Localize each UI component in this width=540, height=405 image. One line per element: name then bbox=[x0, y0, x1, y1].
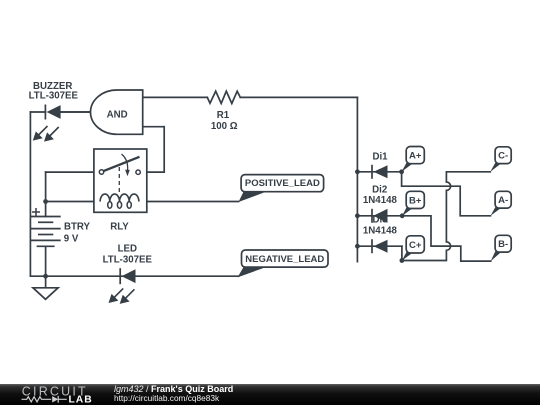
svg-text:LAB: LAB bbox=[69, 394, 93, 405]
svg-text:Di2: Di2 bbox=[372, 184, 387, 195]
svg-text:POSITIVE_LEAD: POSITIVE_LEAD bbox=[245, 178, 320, 189]
svg-text:AND: AND bbox=[107, 110, 128, 121]
svg-text:1N4148: 1N4148 bbox=[363, 226, 398, 237]
svg-text:9 V: 9 V bbox=[64, 233, 79, 244]
svg-text:C-: C- bbox=[498, 151, 508, 162]
svg-text:1N4148: 1N4148 bbox=[363, 195, 398, 206]
svg-text:A+: A+ bbox=[409, 151, 422, 162]
svg-text:R1: R1 bbox=[217, 110, 230, 121]
svg-text:LTL-307EE: LTL-307EE bbox=[29, 91, 79, 102]
svg-text:C+: C+ bbox=[409, 240, 422, 251]
svg-text:100 Ω: 100 Ω bbox=[211, 121, 238, 132]
svg-text:A-: A- bbox=[498, 195, 508, 206]
svg-text:B+: B+ bbox=[409, 195, 422, 206]
svg-text:RLY: RLY bbox=[110, 221, 129, 232]
svg-text:B-: B- bbox=[498, 239, 508, 250]
svg-text:NEGATIVE_LEAD: NEGATIVE_LEAD bbox=[245, 254, 324, 265]
svg-text:http://circuitlab.com/cq8e83k: http://circuitlab.com/cq8e83k bbox=[114, 393, 220, 403]
svg-text:LED: LED bbox=[118, 243, 137, 254]
svg-text:Di1: Di1 bbox=[372, 151, 388, 162]
svg-text:LTL-307EE: LTL-307EE bbox=[103, 254, 153, 265]
svg-text:BTRY: BTRY bbox=[64, 221, 91, 232]
